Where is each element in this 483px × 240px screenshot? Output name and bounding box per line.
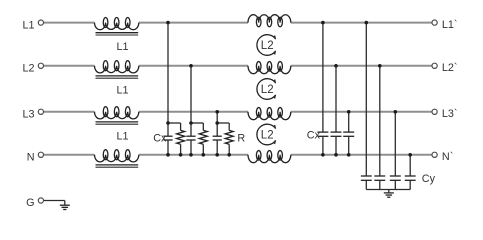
svg-text:Cx: Cx — [307, 129, 321, 141]
svg-text:N`: N` — [442, 151, 453, 163]
svg-text:L2: L2 — [22, 63, 34, 75]
svg-text:L2: L2 — [261, 40, 274, 52]
svg-text:L2`: L2` — [442, 62, 458, 74]
svg-text:Cy: Cy — [422, 173, 436, 185]
svg-text:L3`: L3` — [442, 108, 458, 120]
svg-text:L1`: L1` — [442, 19, 458, 31]
svg-text:Cx: Cx — [153, 133, 167, 145]
svg-text:L2: L2 — [261, 84, 274, 96]
svg-text:L1: L1 — [116, 130, 128, 142]
svg-text:L2: L2 — [261, 129, 274, 141]
svg-text:L1: L1 — [22, 19, 34, 31]
svg-text:G: G — [26, 197, 34, 209]
svg-text:L3: L3 — [22, 109, 34, 121]
svg-text:L1: L1 — [116, 41, 128, 53]
svg-text:L1: L1 — [116, 84, 128, 96]
svg-text:R: R — [237, 133, 245, 145]
svg-text:N: N — [27, 152, 35, 164]
